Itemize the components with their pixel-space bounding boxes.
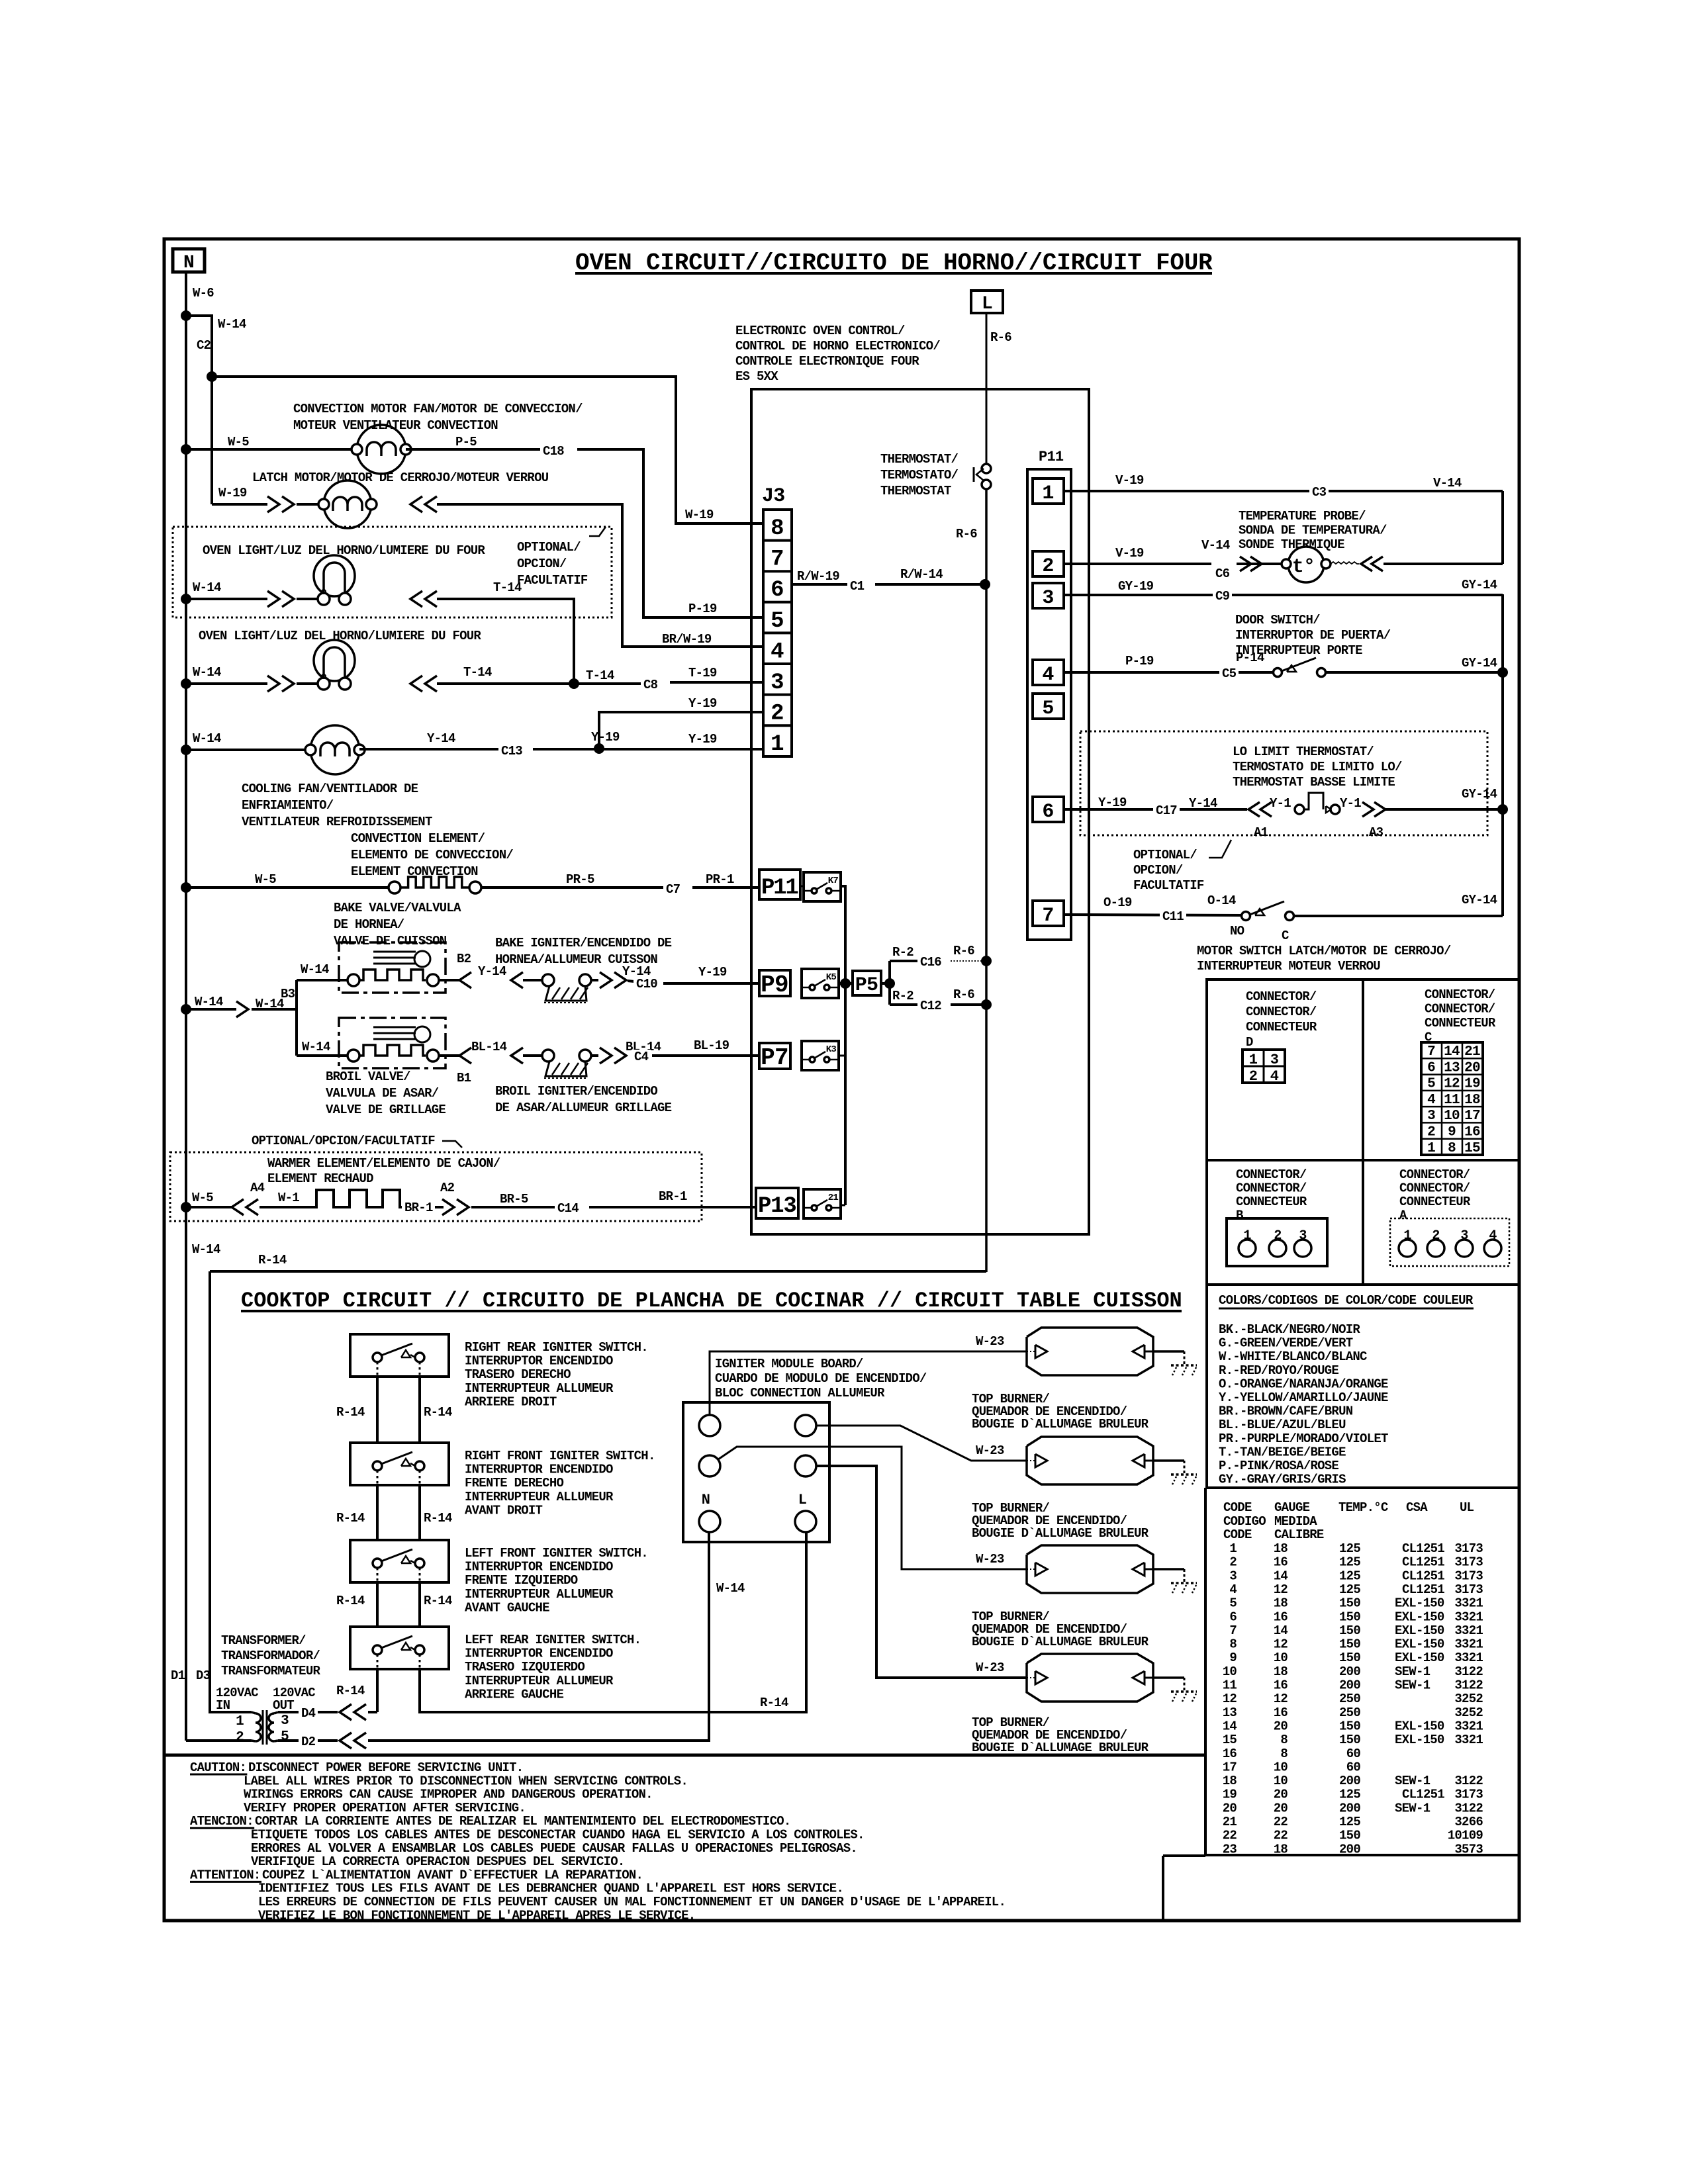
svg-text:V-14: V-14 bbox=[1433, 476, 1462, 490]
svg-text:16: 16 bbox=[1274, 1555, 1288, 1570]
svg-text:GY-19: GY-19 bbox=[1118, 579, 1154, 594]
svg-text:R-2: R-2 bbox=[892, 989, 914, 1003]
arrows light2 in bbox=[267, 676, 279, 692]
svg-text:P-19: P-19 bbox=[1125, 654, 1154, 668]
svg-text:3321: 3321 bbox=[1454, 1610, 1483, 1624]
svg-text:22: 22 bbox=[1274, 1829, 1288, 1843]
svg-text:GY-14: GY-14 bbox=[1462, 578, 1497, 592]
junction dot W-5 convection bbox=[181, 444, 191, 455]
svg-text:SEW-1: SEW-1 bbox=[1395, 1801, 1430, 1815]
svg-text:6: 6 bbox=[1427, 1060, 1435, 1075]
wire P11 to K7 bbox=[800, 886, 804, 887]
label C9 bbox=[1213, 589, 1232, 603]
svg-text:R-6: R-6 bbox=[990, 330, 1011, 345]
svg-text:C3: C3 bbox=[1312, 485, 1327, 500]
svg-text:D: D bbox=[1246, 1035, 1253, 1050]
svg-text:R-14: R-14 bbox=[336, 1511, 365, 1525]
svg-text:T-19: T-19 bbox=[688, 666, 717, 680]
wire relay vertical bbox=[844, 983, 847, 1205]
svg-text:150: 150 bbox=[1339, 1719, 1360, 1733]
svg-text:BL-14: BL-14 bbox=[471, 1040, 507, 1054]
arrows warmer left bbox=[232, 1199, 244, 1215]
svg-text:3252: 3252 bbox=[1454, 1706, 1483, 1720]
svg-text:B1: B1 bbox=[457, 1071, 471, 1085]
svg-text:ETIQUETE TODOS LOS CABLES ANTE: ETIQUETE TODOS LOS CABLES ANTES DE DESCO… bbox=[251, 1828, 865, 1843]
svg-text:13: 13 bbox=[1444, 1060, 1460, 1075]
EOC box bbox=[751, 389, 1089, 1234]
svg-text:18: 18 bbox=[1464, 1093, 1480, 1108]
cooktop box top edge R-14 wire bbox=[210, 1270, 986, 1273]
junction dot lolimit GY-14 bbox=[1497, 804, 1508, 815]
svg-text:WIRINGS ERRORS CAN CAUSE IMPRO: WIRINGS ERRORS CAN CAUSE IMPROPER AND DA… bbox=[244, 1788, 653, 1802]
wire between switch 3-4 right bbox=[418, 1582, 421, 1627]
svg-text:Y-14: Y-14 bbox=[1189, 796, 1217, 811]
svg-text:LEFT REAR IGNITER SWITCH.: LEFT REAR IGNITER SWITCH. bbox=[465, 1633, 641, 1647]
svg-text:125: 125 bbox=[1339, 1569, 1360, 1583]
label OPTIONAL warmer bbox=[252, 1134, 462, 1148]
svg-text:R-6: R-6 bbox=[953, 987, 974, 1002]
svg-text:3: 3 bbox=[1299, 1228, 1306, 1244]
wire C18 return to J3-5 bbox=[577, 449, 763, 617]
junction dot door GY-14 bbox=[1497, 667, 1508, 678]
wire to warmer element bbox=[259, 1206, 312, 1208]
wire C7 to P11 bbox=[692, 886, 759, 889]
svg-text:SONDE THERMIQUE: SONDE THERMIQUE bbox=[1239, 537, 1344, 552]
lo limit thermostat element bbox=[1295, 793, 1340, 814]
svg-text:17: 17 bbox=[1223, 1760, 1237, 1774]
svg-text:CONNECTOR/: CONNECTOR/ bbox=[1246, 1005, 1317, 1019]
connector P11 box bbox=[759, 870, 800, 901]
svg-text:3321: 3321 bbox=[1454, 1637, 1483, 1652]
svg-text:12: 12 bbox=[1223, 1692, 1237, 1706]
wire broil igniter out bbox=[591, 1054, 598, 1057]
wire bake igniter out bbox=[591, 979, 598, 981]
label C12 bbox=[917, 999, 944, 1013]
svg-text:16: 16 bbox=[1464, 1125, 1480, 1140]
arrows bake igniter out bbox=[600, 972, 626, 988]
svg-text:O.-ORANGE/NARANJA/ORANGE: O.-ORANGE/NARANJA/ORANGE bbox=[1219, 1377, 1388, 1391]
svg-text:R-2: R-2 bbox=[892, 945, 914, 960]
top burner 3 bbox=[1027, 1545, 1153, 1593]
label C8 bbox=[641, 678, 660, 692]
svg-text:CL1251: CL1251 bbox=[1402, 1582, 1444, 1597]
svg-text:BLOC CONNECTION ALLUMEUR: BLOC CONNECTION ALLUMEUR bbox=[715, 1386, 885, 1400]
label C17 bbox=[1153, 803, 1180, 817]
svg-text:C7: C7 bbox=[666, 882, 680, 897]
svg-text:14: 14 bbox=[1274, 1623, 1288, 1638]
svg-text:CONNECTEUR: CONNECTEUR bbox=[1246, 1020, 1317, 1034]
junction dot K5-P5 bbox=[840, 978, 851, 989]
wire between switch 2-3 left bbox=[376, 1485, 379, 1540]
svg-text:N: N bbox=[183, 253, 194, 273]
wire K7 to vertical bbox=[841, 886, 845, 983]
svg-text:BK.-BLACK/NEGRO/NOIR: BK.-BLACK/NEGRO/NOIR bbox=[1219, 1322, 1360, 1337]
svg-text:150: 150 bbox=[1339, 1596, 1360, 1611]
svg-text:125: 125 bbox=[1339, 1815, 1360, 1829]
wire burner 2 ground bbox=[1153, 1459, 1184, 1462]
svg-text:BAKE VALVE/VALVULA: BAKE VALVE/VALVULA bbox=[334, 901, 461, 915]
label C3 bbox=[1309, 485, 1329, 499]
igniter switch box 4 bbox=[350, 1627, 449, 1669]
arrows probe left bbox=[1240, 557, 1262, 571]
svg-text:THERMOSTAT BASSE LIMITE: THERMOSTAT BASSE LIMITE bbox=[1233, 775, 1395, 790]
svg-text:TRANSFORMATEUR: TRANSFORMATEUR bbox=[221, 1664, 320, 1678]
connector B box bbox=[1227, 1218, 1327, 1266]
svg-text:2: 2 bbox=[1249, 1068, 1257, 1085]
svg-text:VERIFIEZ LE BON FONCTIONNEMENT: VERIFIEZ LE BON FONCTIONNEMENT DE L'APPA… bbox=[258, 1908, 695, 1923]
svg-text:D2: D2 bbox=[301, 1735, 316, 1749]
svg-text:PR.-PURPLE/MORADO/VIOLET: PR.-PURPLE/MORADO/VIOLET bbox=[1219, 1432, 1388, 1446]
top burner 1 bbox=[1027, 1328, 1153, 1375]
svg-text:TEMP.°C: TEMP.°C bbox=[1338, 1500, 1388, 1515]
svg-text:R/W-14: R/W-14 bbox=[900, 567, 943, 582]
wire P11-2 V-19 row bbox=[1064, 563, 1211, 565]
svg-text:125: 125 bbox=[1339, 1555, 1360, 1570]
svg-text:MEDIDA: MEDIDA bbox=[1274, 1514, 1317, 1529]
wire lo limit to GY-14 bbox=[1383, 808, 1503, 811]
svg-text:CONNECTEUR: CONNECTEUR bbox=[1425, 1016, 1496, 1030]
wire latch to motor bbox=[297, 503, 328, 506]
svg-text:W-23: W-23 bbox=[976, 1443, 1004, 1458]
svg-text:THERMOSTAT/: THERMOSTAT/ bbox=[880, 452, 959, 467]
wire module TL to burner1 bbox=[710, 1351, 1027, 1415]
svg-text:A4: A4 bbox=[250, 1181, 265, 1195]
svg-text:250: 250 bbox=[1339, 1692, 1360, 1706]
connector P13 box bbox=[756, 1188, 798, 1219]
svg-text:EXL-150: EXL-150 bbox=[1395, 1733, 1444, 1747]
wire between switch 1-2 right bbox=[418, 1377, 421, 1443]
svg-text:COOLING FAN/VENTILADOR DE: COOLING FAN/VENTILADOR DE bbox=[242, 782, 418, 796]
svg-text:22: 22 bbox=[1274, 1815, 1288, 1829]
svg-text:CONNECTEUR: CONNECTEUR bbox=[1399, 1195, 1471, 1209]
wire latch motor row bbox=[212, 503, 267, 506]
top burner 4 bbox=[1027, 1654, 1153, 1702]
svg-text:P9: P9 bbox=[761, 972, 788, 999]
ground burner 3 bbox=[1184, 1569, 1186, 1583]
svg-text:3173: 3173 bbox=[1454, 1582, 1483, 1597]
svg-text:DOOR SWITCH/: DOOR SWITCH/ bbox=[1235, 613, 1320, 627]
wire C14 to P13 bbox=[589, 1206, 756, 1208]
svg-text:2: 2 bbox=[1427, 1125, 1435, 1140]
connector P11 pin 3 bbox=[1033, 583, 1064, 610]
arrows broil igniter out bbox=[600, 1048, 626, 1064]
svg-text:V-19: V-19 bbox=[1115, 546, 1144, 561]
svg-text:CL1251: CL1251 bbox=[1402, 1788, 1444, 1802]
svg-text:D1: D1 bbox=[171, 1668, 185, 1683]
wire P11-7 O-19 row bbox=[1064, 915, 1242, 915]
wire C10 to P9 bbox=[663, 982, 759, 985]
svg-text:NO: NO bbox=[1230, 924, 1244, 938]
wire C13 to J3-1 bbox=[533, 748, 763, 751]
svg-text:C4: C4 bbox=[634, 1050, 649, 1064]
wire burner 3 ground bbox=[1153, 1568, 1184, 1570]
svg-text:T-14: T-14 bbox=[586, 668, 614, 683]
svg-text:21: 21 bbox=[1223, 1815, 1237, 1829]
svg-text:5: 5 bbox=[771, 609, 784, 634]
wire K5 to P5 bbox=[839, 982, 853, 985]
wire V-14 down right bbox=[1501, 491, 1504, 564]
svg-text:10: 10 bbox=[1274, 1774, 1288, 1788]
svg-text:R-14: R-14 bbox=[258, 1253, 287, 1267]
relay K5 bbox=[802, 969, 839, 998]
svg-text:GY-14: GY-14 bbox=[1462, 787, 1497, 801]
arrows broil igniter bbox=[459, 1048, 523, 1064]
svg-text:K7: K7 bbox=[828, 876, 839, 886]
svg-text:A1: A1 bbox=[1254, 825, 1268, 840]
svg-text:C11: C11 bbox=[1162, 909, 1184, 924]
wire R-2 C16 branch bbox=[888, 961, 891, 1005]
optional box oven light 1 bbox=[173, 527, 612, 617]
wire D4 to igniter column bbox=[368, 1711, 377, 1713]
svg-text:16: 16 bbox=[1274, 1610, 1288, 1624]
svg-text:7: 7 bbox=[1042, 905, 1053, 927]
svg-text:PR-1: PR-1 bbox=[706, 872, 734, 887]
svg-text:J3: J3 bbox=[762, 485, 785, 508]
svg-text:3: 3 bbox=[281, 1713, 289, 1729]
svg-text:EXL-150: EXL-150 bbox=[1395, 1596, 1444, 1611]
convection motor M1 bbox=[357, 425, 406, 474]
svg-text:MOTOR SWITCH LATCH/MOTOR DE CE: MOTOR SWITCH LATCH/MOTOR DE CERROJO/ bbox=[1197, 944, 1451, 958]
label D4 bbox=[299, 1706, 318, 1720]
svg-text:20: 20 bbox=[1464, 1060, 1480, 1075]
wire branch vertical bake/broil bbox=[295, 980, 298, 1056]
svg-text:L: L bbox=[982, 294, 992, 314]
svg-text:LES ERREURS DE CONNECTION DE F: LES ERREURS DE CONNECTION DE FILS PEUVEN… bbox=[258, 1895, 1006, 1909]
svg-text:P13: P13 bbox=[758, 1194, 796, 1219]
svg-text:150: 150 bbox=[1339, 1651, 1360, 1665]
svg-text:C: C bbox=[1282, 929, 1289, 943]
svg-text:TRANSFORMADOR/: TRANSFORMADOR/ bbox=[221, 1649, 320, 1663]
svg-text:W-19: W-19 bbox=[685, 508, 714, 522]
junction dot Y-19 bbox=[594, 743, 604, 754]
svg-text:FRENTE IZQUIERDO: FRENTE IZQUIERDO bbox=[465, 1573, 578, 1588]
svg-text:5: 5 bbox=[1042, 698, 1053, 720]
svg-text:12: 12 bbox=[1274, 1692, 1288, 1706]
label C18 bbox=[540, 444, 567, 458]
wire warmer to arrows bbox=[435, 1206, 444, 1208]
svg-text:T-14: T-14 bbox=[493, 580, 522, 595]
oven light lamp 1 bbox=[314, 555, 355, 596]
wire branch C2 bbox=[186, 316, 212, 504]
svg-text:BAKE IGNITER/ENCENDIDO DE: BAKE IGNITER/ENCENDIDO DE bbox=[495, 936, 672, 950]
svg-text:W-19: W-19 bbox=[218, 486, 247, 500]
ground burner 4 bbox=[1184, 1678, 1186, 1692]
svg-text:3321: 3321 bbox=[1454, 1719, 1483, 1733]
svg-text:V-19: V-19 bbox=[1115, 473, 1144, 488]
wire burner 4 ground bbox=[1153, 1676, 1184, 1679]
arrows light2 return bbox=[410, 676, 422, 692]
thermostat contact bbox=[974, 464, 991, 489]
gauge table rows bbox=[1223, 1541, 1483, 1856]
svg-text:TRASERO IZQUIERDO: TRASERO IZQUIERDO bbox=[465, 1660, 585, 1674]
wire door switch to GY-14 bbox=[1326, 671, 1503, 674]
svg-text:23: 23 bbox=[1223, 1842, 1237, 1856]
lo limit dashed box bbox=[1080, 731, 1487, 835]
svg-text:BL-19: BL-19 bbox=[694, 1038, 729, 1053]
svg-text:SEW-1: SEW-1 bbox=[1395, 1774, 1430, 1788]
svg-text:3: 3 bbox=[771, 670, 784, 696]
arrows bake igniter bbox=[459, 972, 523, 988]
wire Y-14 to C13 bbox=[359, 748, 500, 751]
svg-text:D3: D3 bbox=[196, 1668, 211, 1683]
svg-text:CSA: CSA bbox=[1406, 1500, 1428, 1515]
svg-text:C9: C9 bbox=[1215, 589, 1230, 604]
svg-text:INTERRUPTEUR ALLUMEUR: INTERRUPTEUR ALLUMEUR bbox=[465, 1381, 614, 1396]
svg-text:12: 12 bbox=[1444, 1077, 1460, 1092]
svg-text:250: 250 bbox=[1339, 1706, 1360, 1720]
svg-text:C16: C16 bbox=[920, 955, 941, 970]
svg-text:O-19: O-19 bbox=[1103, 895, 1132, 910]
svg-text:14: 14 bbox=[1444, 1044, 1460, 1060]
svg-text:P11: P11 bbox=[761, 876, 798, 901]
svg-text:LATCH MOTOR/MOTOR DE CERROJO/M: LATCH MOTOR/MOTOR DE CERROJO/MOTEUR VERR… bbox=[252, 471, 549, 485]
svg-text:18: 18 bbox=[1274, 1596, 1288, 1611]
svg-text:L: L bbox=[798, 1492, 807, 1508]
arrows warmer right bbox=[442, 1199, 454, 1215]
wire between switch 2-3 right bbox=[418, 1485, 421, 1540]
wire to C10 bbox=[628, 981, 634, 981]
relay K3 bbox=[802, 1041, 839, 1070]
svg-text:AVANT GAUCHE: AVANT GAUCHE bbox=[465, 1600, 549, 1615]
svg-text:B2: B2 bbox=[457, 952, 471, 966]
wire D2 row bbox=[278, 1739, 338, 1742]
svg-text:T-14: T-14 bbox=[463, 665, 492, 680]
svg-text:ES 5XX: ES 5XX bbox=[735, 369, 778, 384]
connector J3 pin boxes bbox=[763, 510, 792, 757]
svg-text:20: 20 bbox=[1274, 1719, 1288, 1733]
wire C16 to R-6 bbox=[951, 960, 986, 962]
wire C1 R/W-14 to R-6 line bbox=[875, 583, 985, 586]
svg-text:EXL-150: EXL-150 bbox=[1395, 1719, 1444, 1733]
warmer element resistor bbox=[312, 1190, 404, 1207]
connector P11 outer box bbox=[1027, 469, 1071, 940]
svg-text:CONNECTOR/: CONNECTOR/ bbox=[1399, 1181, 1470, 1196]
svg-text:W-5: W-5 bbox=[228, 435, 249, 449]
svg-text:CONNECTEUR: CONNECTEUR bbox=[1236, 1195, 1307, 1209]
svg-text:UL: UL bbox=[1460, 1500, 1474, 1515]
wire Y-19 to J3-2 bbox=[599, 712, 763, 749]
svg-text:ENFRIAMIENTO/: ENFRIAMIENTO/ bbox=[242, 798, 334, 813]
label D2 bbox=[299, 1735, 318, 1749]
svg-text:A2: A2 bbox=[440, 1181, 455, 1195]
svg-text:FACULTATIF: FACULTATIF bbox=[517, 573, 588, 588]
svg-text:BR-1: BR-1 bbox=[659, 1189, 687, 1204]
bake valve V1 bbox=[339, 942, 445, 993]
wire C4 to P7 bbox=[652, 1054, 759, 1057]
svg-text:10: 10 bbox=[1223, 1664, 1237, 1679]
svg-text:OVEN LIGHT/LUZ DEL HORNO/LUMIE: OVEN LIGHT/LUZ DEL HORNO/LUMIERE DU FOUR bbox=[203, 543, 485, 558]
svg-text:C5: C5 bbox=[1222, 666, 1237, 681]
svg-text:22: 22 bbox=[1223, 1829, 1237, 1843]
svg-text:18: 18 bbox=[1274, 1664, 1288, 1679]
label C1 bbox=[847, 579, 867, 593]
svg-text:Y-19: Y-19 bbox=[698, 965, 727, 979]
svg-text:CORTAR LA CORRIENTE ANTES DE R: CORTAR LA CORRIENTE ANTES DE REALIZAR EL… bbox=[255, 1814, 791, 1829]
svg-text:3321: 3321 bbox=[1454, 1733, 1483, 1747]
svg-text:SONDA DE TEMPERATURA/: SONDA DE TEMPERATURA/ bbox=[1239, 523, 1387, 538]
wire into broil valve bbox=[297, 1054, 353, 1057]
svg-text:20: 20 bbox=[1274, 1801, 1288, 1815]
svg-text:150: 150 bbox=[1339, 1829, 1360, 1843]
svg-text:OPTIONAL/: OPTIONAL/ bbox=[517, 540, 581, 555]
svg-text:3122: 3122 bbox=[1454, 1678, 1483, 1693]
svg-text:VALVE DE CUISSON: VALVE DE CUISSON bbox=[334, 934, 447, 948]
svg-text:W-14: W-14 bbox=[218, 317, 246, 332]
svg-text:OPCION/: OPCION/ bbox=[517, 557, 567, 571]
svg-text:CALIBRE: CALIBRE bbox=[1274, 1527, 1324, 1542]
wire P-5 to C18 bbox=[406, 448, 541, 451]
svg-text:1: 1 bbox=[1042, 482, 1053, 505]
svg-text:Y-1: Y-1 bbox=[1340, 796, 1361, 811]
svg-text:R-14: R-14 bbox=[424, 1594, 452, 1608]
svg-text:CODE: CODE bbox=[1223, 1500, 1252, 1515]
svg-text:P11: P11 bbox=[1039, 449, 1064, 465]
svg-text:Y-19: Y-19 bbox=[688, 732, 717, 747]
svg-text:OPCION/: OPCION/ bbox=[1133, 863, 1183, 878]
wire convection motor row bbox=[186, 448, 357, 451]
svg-text:CONVECTION ELEMENT/: CONVECTION ELEMENT/ bbox=[351, 831, 485, 846]
label C7 bbox=[663, 882, 682, 896]
latch motor M2 bbox=[324, 480, 371, 528]
svg-text:7: 7 bbox=[1229, 1623, 1237, 1638]
svg-text:14: 14 bbox=[1223, 1719, 1237, 1733]
connector P11 pin 2 bbox=[1033, 551, 1064, 578]
svg-text:200: 200 bbox=[1339, 1678, 1360, 1693]
junction dot N bus bbox=[181, 310, 191, 321]
wire light1 row bbox=[186, 598, 267, 600]
arrows light1 in bbox=[267, 591, 279, 607]
svg-text:21: 21 bbox=[828, 1193, 839, 1203]
svg-text:125: 125 bbox=[1339, 1541, 1360, 1556]
svg-text:2: 2 bbox=[1274, 1228, 1281, 1244]
page border frame bbox=[164, 239, 1519, 1921]
svg-text:15: 15 bbox=[1223, 1733, 1237, 1747]
svg-text:4: 4 bbox=[1427, 1093, 1435, 1108]
svg-text:9: 9 bbox=[1229, 1651, 1237, 1665]
connector A box bbox=[1390, 1218, 1509, 1266]
svg-text:DISCONNECT POWER BEFORE SERVIC: DISCONNECT POWER BEFORE SERVICING UNIT. bbox=[248, 1760, 523, 1775]
svg-text:t°: t° bbox=[1292, 556, 1315, 578]
svg-text:ATENCION:: ATENCION: bbox=[190, 1814, 254, 1829]
svg-text:R-14: R-14 bbox=[336, 1405, 365, 1420]
wire C8 to J3-3 bbox=[670, 681, 763, 684]
svg-text:EXL-150: EXL-150 bbox=[1395, 1651, 1444, 1665]
svg-text:CONVECTION MOTOR FAN/MOTOR DE: CONVECTION MOTOR FAN/MOTOR DE CONVECCION… bbox=[293, 402, 583, 416]
svg-text:IDENTIFIEZ TOUS LES FILS AVANT: IDENTIFIEZ TOUS LES FILS AVANT DE LES DE… bbox=[258, 1882, 843, 1896]
wire PR-5 to C7 bbox=[481, 886, 663, 889]
wire to lamp1 bbox=[297, 598, 322, 600]
svg-text:7: 7 bbox=[771, 547, 784, 572]
label BR-1 warmer bbox=[402, 1201, 436, 1214]
wire module TR to burner2 bbox=[816, 1426, 1027, 1461]
svg-text:LO LIMIT THERMOSTAT/: LO LIMIT THERMOSTAT/ bbox=[1233, 745, 1374, 759]
label C6 bbox=[1213, 567, 1232, 580]
wire warmer row left bbox=[186, 1206, 232, 1208]
NO C switch bbox=[1242, 912, 1250, 921]
svg-text:W-23: W-23 bbox=[976, 1661, 1004, 1675]
svg-text:20: 20 bbox=[1223, 1801, 1237, 1815]
svg-text:3173: 3173 bbox=[1454, 1569, 1483, 1583]
svg-text:W-14: W-14 bbox=[301, 962, 329, 977]
title COOKTOP CIRCUIT bbox=[241, 1289, 1182, 1313]
svg-text:CONTROL DE HORNO ELECTRONICO/: CONTROL DE HORNO ELECTRONICO/ bbox=[735, 339, 940, 353]
svg-text:IGNITER MODULE BOARD/: IGNITER MODULE BOARD/ bbox=[715, 1357, 863, 1371]
wire valve to arrows bake bbox=[439, 979, 461, 981]
svg-text:1: 1 bbox=[1427, 1141, 1435, 1156]
svg-text:5: 5 bbox=[1229, 1596, 1237, 1611]
svg-text:6: 6 bbox=[1042, 801, 1053, 823]
svg-text:W-14: W-14 bbox=[193, 665, 221, 680]
